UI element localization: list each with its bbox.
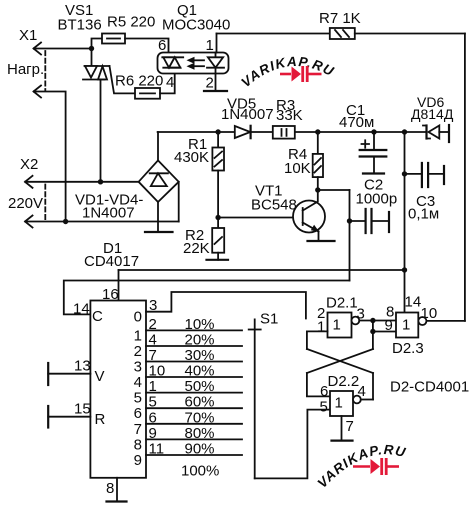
- junction dot collector node: [315, 187, 320, 192]
- pin 4 label: [166, 74, 174, 91]
- svg-text:33K: 33K: [276, 107, 303, 124]
- wire rail to R4: [317, 132, 319, 154]
- wire cross to D2.2 output: [372, 373, 374, 400]
- logo VARIKAP.RU bottom: [314, 442, 407, 491]
- ground bar R2: [207, 259, 229, 261]
- pin 9 label D2.3: [385, 317, 393, 334]
- svg-text:1N4007: 1N4007: [221, 106, 274, 123]
- pin 8 label D2.3: [386, 304, 394, 321]
- capacitor C1: [360, 132, 387, 174]
- gate D2.1 label: [326, 295, 358, 312]
- label 80%: [185, 425, 215, 442]
- pin 7 label: [149, 347, 157, 364]
- svg-text:R7 1K: R7 1K: [319, 10, 361, 27]
- svg-text:BC548: BC548: [251, 197, 297, 214]
- pin 1 label: [206, 37, 214, 54]
- logo red varicap bottom: [353, 458, 399, 475]
- wire output 2: [146, 345, 242, 347]
- junction dot VD6 node: [402, 129, 407, 134]
- output 9 label: [134, 452, 142, 469]
- svg-text:430K: 430K: [174, 149, 209, 166]
- svg-text:220V: 220V: [8, 195, 43, 212]
- svg-text:2: 2: [206, 75, 214, 92]
- wire bridge minus down: [157, 202, 159, 232]
- svg-text:R5 220: R5 220: [107, 14, 155, 31]
- svg-text:1: 1: [206, 37, 214, 54]
- pin 9 label: [149, 425, 157, 442]
- counter D1 label: [84, 240, 139, 270]
- wire R2 to ground: [217, 253, 219, 260]
- junction dot R4 top: [315, 129, 320, 134]
- svg-text:Нагр.: Нагр.: [7, 61, 44, 78]
- resistor R3: [273, 126, 295, 139]
- wire node A up to R5: [92, 39, 103, 49]
- zener diode VD6: [405, 126, 449, 139]
- wire collector node to clock vertical: [318, 189, 350, 191]
- svg-text:BT136: BT136: [58, 17, 102, 34]
- node A junction dot: [89, 46, 94, 51]
- wire right rail down to D2.3 output: [464, 34, 466, 321]
- svg-text:100%: 100%: [181, 463, 219, 480]
- wire X2 pin1 to bridge: [26, 181, 139, 183]
- wire output 9: [146, 454, 242, 456]
- connector X1 label: [19, 27, 37, 44]
- wire pin1 node to R7: [217, 33, 330, 35]
- wire opto pin1 up to R7 line: [216, 34, 218, 53]
- wire pin 13: [48, 363, 90, 385]
- capacitor C3 label: [408, 193, 439, 223]
- wire rail to R1: [217, 132, 219, 148]
- svg-text:D2.3: D2.3: [392, 340, 424, 357]
- capacitor C3: [405, 163, 444, 187]
- wire D2.3 output to right rail: [426, 320, 465, 322]
- svg-text:1N4007: 1N4007: [82, 205, 135, 222]
- pin V label: [95, 368, 105, 385]
- svg-text:X2: X2: [20, 156, 38, 173]
- svg-text:X1: X1: [19, 27, 37, 44]
- svg-text:D2.1: D2.1: [326, 295, 358, 312]
- wire clock vertical: [349, 190, 351, 281]
- output 1 label: [134, 327, 142, 344]
- svg-text:7: 7: [134, 421, 142, 438]
- junction dot VS1 MT2 on X2 wire: [98, 179, 103, 184]
- junction dot R1 top: [215, 129, 220, 134]
- pin 6 label: [158, 37, 166, 54]
- connector X2 dashed link: [44, 185, 46, 221]
- svg-text:S1: S1: [260, 311, 278, 328]
- pin 11 label: [149, 441, 165, 458]
- wire D2.1 pin 1: [307, 331, 328, 349]
- svg-text:6: 6: [158, 37, 166, 54]
- gate D2.1: [328, 313, 360, 338]
- resistor R7: [330, 28, 355, 39]
- svg-text:1: 1: [317, 319, 325, 336]
- pin 5 label D2.2: [320, 399, 328, 416]
- label 70%: [185, 409, 215, 426]
- capacitor C2 label: [356, 177, 398, 208]
- label 60%: [185, 394, 215, 411]
- wire output 6: [146, 407, 242, 409]
- bridge rectifier VD1-VD4: [139, 160, 179, 202]
- opto-triac Q1 body: [158, 53, 229, 74]
- output 5 label: [134, 390, 142, 407]
- label 10%: [185, 316, 215, 333]
- counter D1 CD4017 body: [90, 301, 146, 478]
- logo VARIKAP.RU top: [238, 54, 337, 90]
- svg-text:5: 5: [134, 390, 142, 407]
- pin 2 label: [149, 316, 157, 333]
- pin 6 label D2.2: [320, 383, 328, 400]
- wire D2.1 output to D2.3 pin 8: [359, 320, 396, 322]
- svg-text:4: 4: [358, 383, 366, 400]
- output 0 label: [134, 309, 142, 326]
- diode VD5: [235, 126, 251, 138]
- wire D2.2 output: [361, 399, 373, 401]
- svg-text:470м: 470м: [339, 114, 374, 131]
- svg-text:1: 1: [134, 327, 142, 344]
- wire output 3: [146, 361, 242, 363]
- wire R1 to R2: [217, 171, 219, 229]
- switch S1 pole: [249, 319, 261, 478]
- svg-text:R: R: [95, 411, 106, 428]
- ground bar D1 pin 8: [107, 500, 127, 502]
- ground bar C3: [443, 166, 445, 184]
- pin 15 label: [74, 401, 91, 418]
- pin 1 label D2.1: [317, 319, 325, 336]
- zener VD6 label: [411, 94, 454, 122]
- wire pin 8 to ground: [116, 478, 118, 502]
- wire output 8: [146, 438, 242, 440]
- wire X1 pin2 down to 220V lower wire: [34, 92, 66, 222]
- capacitor C1 label: [339, 102, 374, 131]
- resistor R6 label: [115, 73, 163, 90]
- svg-text:6: 6: [320, 383, 328, 400]
- gate D2.3: [396, 313, 426, 338]
- opto light arrows: [187, 57, 205, 70]
- net V+ vertical: [404, 132, 406, 313]
- pin 5 label: [149, 394, 157, 411]
- gate D2.2: [330, 391, 361, 416]
- svg-text:5: 5: [320, 399, 328, 416]
- svg-text:1: 1: [335, 395, 343, 412]
- pin 13 label: [74, 358, 91, 375]
- resistor R1: [212, 148, 224, 171]
- connector X1 dashed link: [44, 51, 46, 90]
- net clock rail to D1 C input: [64, 281, 350, 315]
- ground bar D2.2: [332, 440, 353, 442]
- wire output 1: [146, 329, 242, 331]
- junction dot rail A to V+: [402, 267, 407, 272]
- label 90%: [185, 441, 215, 458]
- svg-text:MOC3040: MOC3040: [162, 17, 230, 34]
- label VS1: [58, 2, 102, 34]
- connector X2 label: [20, 156, 38, 173]
- pin 2 label: [206, 75, 214, 92]
- output 8 label: [134, 436, 142, 453]
- wire output 4: [146, 376, 242, 378]
- resistor R7 label: [319, 10, 361, 27]
- junction dot D: [370, 329, 375, 334]
- svg-text:4: 4: [134, 374, 142, 391]
- pin R label: [95, 411, 106, 428]
- wire D2.3 pin 9: [373, 331, 396, 333]
- svg-text:13: 13: [74, 358, 91, 375]
- wire R6 to opto pin 4: [160, 68, 175, 94]
- resistor R2: [212, 228, 224, 253]
- pin 1 label: [149, 378, 157, 395]
- wire latch cross diagonal 1: [307, 349, 373, 373]
- label Q1 MOC3040: [162, 2, 230, 34]
- wire output 5: [146, 392, 242, 394]
- svg-text:Д814Д: Д814Д: [411, 106, 454, 122]
- pin 14 label D2.3: [405, 294, 422, 311]
- svg-text:4: 4: [166, 74, 174, 91]
- resistor R5 label: [107, 14, 155, 31]
- pin 7 label D2.2: [346, 418, 354, 435]
- ground bar bridge: [145, 231, 173, 233]
- junction dot base node: [215, 215, 220, 220]
- junction dot C: [370, 318, 375, 323]
- svg-text:6: 6: [134, 405, 142, 422]
- wire X1 pin1 to node A: [34, 48, 92, 50]
- pin 14 label: [73, 301, 90, 318]
- svg-text:15: 15: [74, 401, 91, 418]
- svg-text:D2.2: D2.2: [328, 373, 360, 390]
- diode VD5 label: [221, 96, 274, 124]
- ground bar VT1 emitter: [308, 240, 335, 242]
- pin C label: [92, 308, 103, 325]
- svg-text:D2-CD4001: D2-CD4001: [390, 379, 469, 396]
- svg-text:R6 220: R6 220: [115, 73, 163, 90]
- switch S1 label: [260, 311, 278, 328]
- net Vdd rail A: [119, 269, 405, 271]
- junction dot C2 tap: [347, 218, 352, 223]
- junction dot C3 tap: [402, 171, 407, 176]
- pin 3 label: [149, 297, 157, 314]
- ground bar C1: [363, 172, 384, 174]
- pin 10 label D2.3: [421, 305, 438, 322]
- svg-text:16: 16: [102, 286, 119, 303]
- ground bar opto pin2: [204, 90, 227, 92]
- svg-text:1: 1: [402, 317, 410, 334]
- svg-text:9: 9: [134, 452, 142, 469]
- resistor R4: [313, 154, 323, 177]
- output 6 label: [134, 405, 142, 422]
- wire S1 to D2.2 pin 5: [255, 410, 330, 479]
- wire opto pin2 to ground: [215, 68, 217, 91]
- junction dot C1 top: [371, 129, 376, 134]
- resistor R1 label: [174, 136, 209, 166]
- resistor R3 label: [276, 97, 303, 124]
- svg-text:2: 2: [134, 343, 142, 360]
- label 50%: [185, 378, 215, 395]
- opto LED: [207, 53, 224, 68]
- svg-text:8: 8: [106, 480, 114, 497]
- net V+ rail: [158, 131, 405, 133]
- transistor VT1 label: [251, 183, 297, 214]
- svg-text:14: 14: [73, 301, 90, 318]
- wire X2 pin2 to bridge right: [26, 221, 179, 223]
- wire pin 15: [48, 406, 90, 428]
- resistor R5: [102, 34, 125, 44]
- svg-text:C: C: [92, 308, 103, 325]
- label D2-CD4001: [390, 379, 469, 396]
- transistor VT1: [293, 190, 325, 241]
- pin 2 label D2.1: [317, 305, 325, 322]
- svg-text:14: 14: [405, 294, 422, 311]
- ground bar C2: [388, 212, 390, 232]
- wire D2.2 pin 7 to ground: [341, 416, 343, 441]
- wire dot D down to latch cross: [372, 332, 374, 350]
- label 220V: [8, 195, 43, 212]
- junction dot X1 pin2 on 220V wire: [63, 219, 68, 224]
- wire bridge right vertex down: [178, 182, 180, 222]
- connector X1 pin 1 arrow: [34, 43, 42, 55]
- pin 8 label: [106, 480, 114, 497]
- output 3 label: [134, 359, 142, 376]
- pin 6 label: [149, 409, 157, 426]
- pin 10 label: [149, 363, 166, 380]
- svg-text:3: 3: [134, 359, 142, 376]
- triac VS1: [83, 49, 135, 182]
- pin 4 label: [149, 332, 157, 349]
- svg-text:0,1м: 0,1м: [408, 206, 439, 223]
- pin 16 label: [102, 286, 119, 303]
- svg-text:10K: 10K: [284, 160, 311, 177]
- pin 4 label D2.2: [358, 383, 366, 400]
- wire R7 to right rail: [355, 33, 465, 35]
- resistor R2 label: [183, 227, 210, 257]
- label 20%: [185, 332, 215, 349]
- pin 3 label D2.1: [357, 306, 365, 323]
- svg-text:1000p: 1000p: [356, 191, 398, 208]
- resistor R4 label: [284, 146, 311, 177]
- svg-text:7: 7: [346, 418, 354, 435]
- wire output 0 to D2.1 pin 2: [146, 292, 306, 319]
- wire R5 to opto pin 6: [125, 39, 169, 53]
- ground bar VD6: [448, 125, 450, 142]
- connector X2 pin2 arrow: [25, 216, 33, 228]
- gate D2.3 label: [392, 340, 424, 357]
- svg-text:V: V: [95, 368, 105, 385]
- wire latch cross diagonal 2: [307, 349, 373, 373]
- label 30%: [185, 347, 215, 364]
- svg-text:8: 8: [134, 436, 142, 453]
- wire base node to VT1 base: [218, 217, 303, 219]
- opto triac element: [162, 57, 183, 67]
- label Нагр.: [7, 61, 44, 78]
- wire output 7: [146, 423, 242, 425]
- svg-text:0: 0: [134, 309, 142, 326]
- wire bridge plus up to rail: [157, 132, 159, 160]
- output 4 label: [134, 374, 142, 391]
- output 7 label: [134, 421, 142, 438]
- svg-text:CD4017: CD4017: [84, 253, 139, 270]
- wire dot C to dot D: [372, 321, 374, 332]
- connector X2 pin1 arrow: [25, 176, 33, 188]
- wire rail A to D1 pin 16: [118, 270, 120, 301]
- wire cross to D2.2 pin 6: [307, 373, 330, 396]
- bridge VD1-VD4 label: [75, 192, 143, 222]
- logo red varicap top: [280, 66, 322, 82]
- connector X1 pin 2 arrow: [34, 86, 42, 98]
- wire R4 to collector node: [317, 177, 319, 190]
- svg-text:22K: 22K: [183, 240, 210, 257]
- svg-text:1: 1: [333, 317, 341, 334]
- svg-text:10: 10: [421, 305, 438, 322]
- output 2 label: [134, 343, 142, 360]
- label 100%: [181, 463, 219, 480]
- gate D2.2 label: [328, 373, 360, 390]
- resistor R6: [135, 88, 160, 99]
- label 40%: [185, 363, 215, 380]
- capacitor C2: [350, 209, 389, 233]
